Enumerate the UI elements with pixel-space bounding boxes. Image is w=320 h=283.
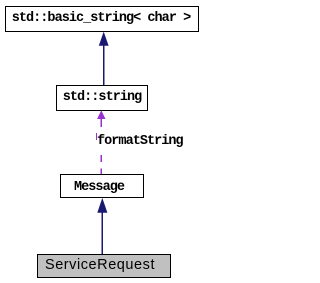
usage edge dash segment 2 (wire, beside label) [96, 133, 98, 140]
class box ServiceRequest (gray, current class) [37, 254, 171, 278]
class box std::basic_string< char > [5, 6, 199, 32]
usage edge dash segment 4 (wire) [100, 169, 102, 175]
inheritance arrowhead at std::basic_string [99, 32, 109, 46]
edge label formatString [97, 135, 183, 149]
usage edge Message -> std::string, dash segment 1 (wire) [100, 118, 102, 127]
usage edge dash segment 3 (wire) [100, 155, 102, 162]
inheritance edge ServiceRequest -> Message (wire) [101, 212, 103, 254]
inheritance arrowhead at Message [97, 198, 107, 213]
inheritance edge std::string -> std::basic_string (wire) [103, 45, 105, 85]
class box Message [60, 174, 144, 198]
class box std::string [56, 85, 148, 111]
usage arrowhead at std::string [97, 110, 105, 119]
